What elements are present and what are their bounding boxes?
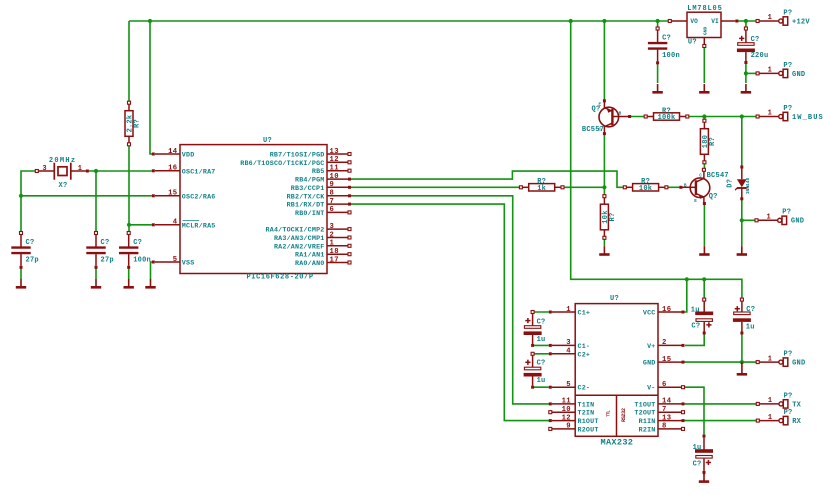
svg-text:C?: C? [662, 35, 671, 43]
svg-text:16: 16 [662, 306, 671, 314]
svg-text:RB6/T1OSCO/T1CKI/PGC: RB6/T1OSCO/T1CKI/PGC [240, 160, 324, 168]
svg-text:D?: D? [727, 179, 735, 188]
svg-text:16: 16 [168, 165, 177, 173]
svg-text:C1-: C1- [578, 343, 591, 351]
svg-text:1: 1 [768, 355, 772, 363]
svg-text:VDD: VDD [182, 152, 195, 160]
svg-text:RB7/T1OSI/PGD: RB7/T1OSI/PGD [270, 152, 325, 160]
svg-text:1W_BUS: 1W_BUS [792, 114, 824, 122]
svg-text:VO: VO [690, 18, 698, 25]
svg-text:C?: C? [101, 239, 110, 247]
svg-text:15: 15 [168, 190, 177, 198]
svg-text:11: 11 [330, 165, 340, 173]
svg-text:P?: P? [783, 105, 792, 113]
svg-text:C2+: C2+ [578, 351, 591, 359]
svg-text:3: 3 [330, 223, 335, 231]
svg-text:7: 7 [330, 198, 335, 206]
svg-text:1u: 1u [693, 444, 702, 452]
svg-text:C2-: C2- [578, 385, 591, 393]
svg-text:1: 1 [768, 397, 772, 405]
svg-text:1N4148: 1N4148 [745, 177, 751, 194]
svg-text:TX: TX [792, 401, 801, 409]
svg-text:12: 12 [562, 414, 571, 422]
svg-text:GND: GND [791, 218, 804, 226]
svg-text:P?: P? [784, 409, 793, 417]
svg-text:R?: R? [709, 137, 717, 146]
svg-text:X?: X? [59, 182, 68, 190]
svg-text:RA3/AN3/CMP1: RA3/AN3/CMP1 [274, 235, 325, 243]
svg-text:C: C [699, 173, 702, 178]
svg-text:+12V: +12V [792, 18, 810, 26]
svg-text:T1OUT: T1OUT [634, 401, 655, 409]
svg-text:PIC16F628-20/P: PIC16F628-20/P [247, 273, 314, 281]
svg-text:V-: V- [647, 385, 655, 393]
svg-text:LM78L05: LM78L05 [687, 5, 722, 13]
svg-text:E: E [694, 199, 697, 204]
svg-text:T1IN: T1IN [578, 401, 595, 409]
svg-text:18: 18 [330, 248, 339, 256]
svg-text:C?: C? [133, 239, 142, 247]
svg-text:220u: 220u [751, 52, 769, 60]
svg-text:R2IN: R2IN [639, 426, 656, 434]
svg-text:C?: C? [693, 461, 702, 469]
svg-text:OSC2/RA6: OSC2/RA6 [182, 193, 216, 201]
svg-text:8: 8 [662, 423, 667, 431]
svg-text:R2OUT: R2OUT [578, 426, 599, 434]
svg-text:P?: P? [782, 209, 791, 217]
svg-text:5: 5 [566, 381, 571, 389]
svg-text:9: 9 [566, 423, 571, 431]
svg-text:C?: C? [537, 319, 546, 327]
svg-text:27p: 27p [26, 256, 39, 264]
svg-text:RA2/AN2/VREF: RA2/AN2/VREF [274, 243, 325, 251]
svg-text:T2OUT: T2OUT [634, 410, 655, 418]
svg-text:3: 3 [566, 339, 571, 347]
svg-text:VCC: VCC [643, 310, 656, 318]
svg-text:RA0/AN0: RA0/AN0 [295, 260, 325, 268]
svg-text:R?: R? [609, 213, 617, 222]
svg-text:13: 13 [330, 148, 339, 156]
svg-text:2: 2 [662, 339, 667, 347]
svg-text:14: 14 [662, 398, 672, 406]
svg-text:P?: P? [784, 351, 793, 359]
svg-text:R?: R? [134, 119, 142, 128]
svg-text:6: 6 [662, 381, 667, 389]
svg-text:C: C [599, 128, 602, 133]
svg-text:1u: 1u [746, 323, 755, 331]
svg-text:8: 8 [330, 190, 335, 198]
svg-text:1: 1 [768, 14, 772, 22]
svg-text:4: 4 [173, 219, 178, 227]
svg-text:1: 1 [566, 306, 571, 314]
svg-text:GND: GND [792, 360, 805, 368]
svg-text:RB5: RB5 [312, 168, 325, 176]
svg-text:U?: U? [688, 38, 697, 46]
svg-text:7: 7 [662, 406, 667, 414]
svg-text:3: 3 [42, 165, 46, 173]
svg-text:100n: 100n [133, 256, 151, 264]
svg-text:RA1/AN1: RA1/AN1 [295, 252, 325, 260]
svg-text:B: B [619, 111, 622, 116]
svg-text:1: 1 [768, 110, 772, 118]
svg-text:20MHz: 20MHz [49, 157, 77, 165]
svg-text:MAX232: MAX232 [601, 438, 634, 448]
svg-text:OSC1/RA7: OSC1/RA7 [182, 168, 216, 176]
svg-text:14: 14 [168, 148, 178, 156]
svg-text:RX: RX [792, 418, 801, 426]
svg-text:RB0/INT: RB0/INT [295, 210, 325, 218]
svg-text:RB1/RX/DT: RB1/RX/DT [287, 202, 325, 210]
svg-text:U?: U? [263, 137, 272, 145]
svg-text:10: 10 [330, 173, 339, 181]
svg-text:27p: 27p [101, 256, 114, 264]
svg-text:1u: 1u [537, 336, 546, 344]
svg-text:2: 2 [330, 231, 335, 239]
svg-text:B: B [684, 184, 687, 189]
svg-text:R1OUT: R1OUT [578, 418, 599, 426]
svg-text:12: 12 [330, 156, 339, 164]
svg-text:P?: P? [783, 9, 792, 17]
svg-text:VSS: VSS [182, 260, 195, 268]
svg-text:TTL: TTL [607, 410, 611, 417]
svg-text:P?: P? [784, 392, 793, 400]
svg-text:1: 1 [768, 414, 772, 422]
svg-text:10k: 10k [639, 185, 652, 193]
svg-text:6: 6 [330, 206, 335, 214]
svg-text:13: 13 [662, 414, 671, 422]
svg-text:1u: 1u [691, 307, 700, 315]
svg-text:RA4/TOCKI/CMP2: RA4/TOCKI/CMP2 [266, 227, 325, 235]
svg-text:1: 1 [768, 67, 772, 75]
svg-text:GND: GND [643, 360, 656, 368]
svg-text:E: E [599, 102, 602, 107]
svg-text:10: 10 [562, 406, 571, 414]
svg-text:RB4/PGM: RB4/PGM [295, 177, 325, 185]
svg-text:100k: 100k [658, 114, 676, 122]
svg-text:1: 1 [767, 214, 771, 222]
svg-text:GND: GND [702, 26, 708, 35]
svg-text:T2IN: T2IN [578, 410, 595, 418]
svg-text:Q?: Q? [709, 193, 718, 201]
svg-text:MCLR/RA5: MCLR/RA5 [182, 222, 216, 230]
svg-text:17: 17 [330, 256, 339, 264]
svg-text:5: 5 [173, 256, 178, 264]
svg-text:1u: 1u [537, 377, 546, 385]
svg-text:9: 9 [330, 181, 335, 189]
svg-text:15: 15 [662, 356, 671, 364]
svg-text:GND: GND [792, 71, 805, 79]
svg-text:C1+: C1+ [578, 310, 591, 318]
svg-text:C?: C? [26, 239, 35, 247]
svg-text:U?: U? [610, 295, 619, 303]
svg-text:BC547: BC547 [707, 172, 729, 180]
svg-text:1k: 1k [537, 185, 546, 193]
svg-text:VI: VI [711, 18, 719, 25]
svg-text:1: 1 [78, 165, 82, 173]
svg-text:RS232: RS232 [621, 408, 627, 422]
svg-text:R1IN: R1IN [639, 418, 656, 426]
svg-text:RB2/TX/CK: RB2/TX/CK [287, 193, 326, 201]
svg-text:1: 1 [330, 240, 335, 248]
svg-text:V+: V+ [647, 343, 655, 351]
svg-text:C?: C? [537, 359, 546, 367]
svg-text:100n: 100n [662, 52, 680, 60]
svg-text:RB3/CCP1: RB3/CCP1 [291, 185, 325, 193]
svg-text:C?: C? [751, 36, 760, 44]
svg-text:C?: C? [691, 323, 700, 331]
svg-text:C?: C? [746, 306, 755, 314]
svg-text:4: 4 [566, 348, 571, 356]
svg-text:11: 11 [562, 398, 572, 406]
svg-text:P?: P? [783, 62, 792, 70]
